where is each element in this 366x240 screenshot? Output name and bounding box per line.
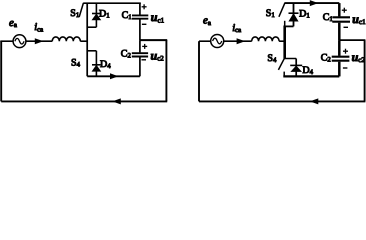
plus sign C1 [342, 9, 347, 11]
wire stub S1 assembly bottom [87, 26, 96, 28]
arrow i_ca (right) [237, 39, 244, 44]
wire stub S4 assembly top [87, 50, 96, 52]
wire source to inductor [26, 40, 52, 42]
wire source to AC circle [0, 40, 13, 42]
voltage source e_a (AC) [13, 35, 26, 48]
switch S1 open blade [79, 3, 83, 17]
voltage source e_a (AC) [211, 35, 224, 48]
wire phase leg vertical (S1/S4 path) [86, 3, 88, 76]
plus sign C2 [142, 45, 147, 47]
minus sign C2 [142, 59, 147, 61]
wire capacitor midpoint to right rail [140, 39, 167, 41]
wire inductor to riser [279, 40, 286, 42]
wire bottom rail (bold) to C2 [283, 75, 339, 77]
capacitor C2 plates [132, 52, 148, 54]
capacitor C1 plates [132, 14, 148, 16]
inductor L [252, 37, 279, 41]
diode D1 cathode bar [92, 13, 101, 15]
diode D1 triangle [93, 14, 101, 19]
capacitor C1 column top (bold) [338, 3, 341, 16]
diode D4 cathode bar [92, 64, 101, 66]
wire right rail [165, 40, 167, 101]
wire left vertical (source return) [198, 41, 200, 101]
diode D1 triangle [289, 14, 297, 21]
diode D1 branch wire [293, 3, 295, 26]
switch S4 open blade [278, 58, 284, 70]
arrow on bottom wire (left) [114, 99, 121, 104]
plus sign C2 [343, 50, 348, 52]
wire stub S4 assembly top [284, 58, 296, 60]
capacitor C1 plates (bold) [332, 16, 350, 18]
arrow i_ca (right) [35, 39, 42, 44]
capacitor C2 column bottom [139, 57, 141, 76]
wire source to inductor [224, 40, 252, 42]
wire stub S1 assembly bottom [284, 25, 294, 27]
diode D4 cathode bar [290, 64, 302, 66]
wire source to AC circle [199, 40, 211, 42]
capacitor C1 column top [139, 3, 141, 14]
minus sign C1 [142, 23, 147, 25]
switch S1 lower contact tick [284, 21, 286, 27]
diode D1 cathode bar [289, 12, 299, 14]
arrow on leg bottom rail (right) [111, 74, 118, 79]
wire top rail (bold) [285, 2, 340, 4]
diode D4 triangle [93, 66, 101, 72]
switch S4 lower contact tick [283, 72, 285, 77]
capacitor C1 column bottom [139, 20, 141, 41]
diode D4 triangle [292, 66, 301, 71]
minus sign C1 [344, 26, 349, 28]
switch S1 open blade [279, 3, 285, 17]
arrow on top rail (right) [310, 1, 317, 6]
diode D4 branch wire [295, 59, 297, 77]
wire left vertical (source return) [0, 41, 2, 101]
wire top rail [83, 2, 141, 4]
wire leg bottom rail to C2 [87, 75, 140, 77]
wire right rail [364, 40, 366, 101]
diode D1 branch wire [95, 3, 97, 27]
capacitor C2 column top [139, 40, 141, 52]
wire leg riser (bold conduction path) [283, 26, 286, 59]
wire bottom return [199, 100, 365, 102]
wire bottom return [1, 100, 167, 102]
minus sign C2 [343, 67, 348, 69]
wire inductor to leg midpoint [80, 40, 87, 42]
capacitor C2 column top (bold) [338, 40, 341, 56]
plus sign C1 [142, 6, 147, 8]
wire capacitor midpoint to right rail [339, 39, 365, 41]
inductor L [52, 37, 80, 41]
capacitor C2 column bottom (bold) [338, 62, 341, 77]
arrow on bottom wire (left) [311, 99, 318, 104]
capacitor C1 column bottom (bold) [338, 23, 341, 40]
diode D4 branch wire [95, 51, 97, 77]
capacitor C2 plates (bold) [332, 56, 350, 58]
